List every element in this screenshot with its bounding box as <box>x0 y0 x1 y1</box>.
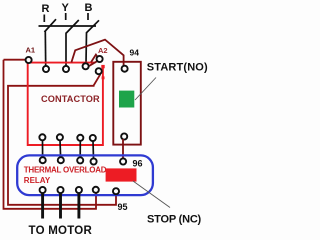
svg-text:B: B <box>85 2 93 14</box>
motor lead 1 <box>41 193 44 218</box>
terminal 96 <box>120 158 126 164</box>
wire left outer loop (dark red: down left border, along bottom, up to overload terminal) <box>4 60 97 209</box>
red stop button <box>106 168 137 181</box>
switch blade pole B <box>86 20 99 33</box>
terminal A2 <box>97 56 103 62</box>
terminal 95 <box>113 188 119 194</box>
switch linkage bar <box>39 25 97 27</box>
overload top terminal 2 <box>58 157 64 163</box>
terminal T1 (contactor bottom) <box>39 134 45 140</box>
terminal L1 (R) <box>43 66 49 72</box>
wire pole Y down to contactor <box>65 33 67 66</box>
terminal L2 (Y) <box>63 66 69 72</box>
wire inner loop (dark red: from aux contact, left at y86, down, along bottom y205, up to 95 terminal) <box>8 74 116 205</box>
overload bottom terminal 4 <box>93 187 99 193</box>
overload top terminal 4 <box>91 158 97 164</box>
overload top terminal 1 <box>40 157 46 163</box>
svg-text:THERMAL OVERLOAD: THERMAL OVERLOAD <box>24 166 107 175</box>
junction dot node (103,66.5) <box>101 65 104 68</box>
wire T2 to overload <box>59 140 62 157</box>
wire B top stub <box>87 13 89 20</box>
terminal 94 <box>122 66 128 72</box>
overload top terminal 3 <box>77 157 83 163</box>
svg-text:STOP (NC): STOP (NC) <box>147 213 202 225</box>
svg-text:94: 94 <box>130 48 140 58</box>
wire pole B down to contactor <box>85 33 88 64</box>
terminal L3 (B) <box>83 63 89 69</box>
motor lead 2 <box>59 193 62 218</box>
wire aux to overload <box>92 141 95 159</box>
svg-text:Y: Y <box>62 2 70 14</box>
wire pole R down to contactor <box>44 32 46 66</box>
wire A2 lambda link <box>91 55 101 63</box>
terminal aux bottom <box>90 135 96 141</box>
wire T3 to overload <box>79 141 81 158</box>
svg-text:TO MOTOR: TO MOTOR <box>29 225 93 237</box>
pointer line STOP <box>133 181 170 208</box>
wire T1 to overload <box>42 140 44 157</box>
terminal 93 (start bottom) <box>121 133 127 139</box>
green start button <box>119 91 134 108</box>
contactor box (bright red) <box>28 63 103 145</box>
terminal T3 <box>77 135 83 141</box>
svg-text:R: R <box>42 3 50 15</box>
pointer line START <box>135 78 156 101</box>
motor lead 3 <box>77 193 80 218</box>
overload bottom terminal 1 <box>40 187 46 193</box>
svg-text:CONTACTOR: CONTACTOR <box>41 94 100 104</box>
aux contact blade (B terminal to A2 terminal) <box>85 58 103 69</box>
svg-text:95: 95 <box>118 202 128 212</box>
wire R top stub <box>43 15 45 23</box>
thermal overload relay box (blue rounded) <box>17 155 153 195</box>
start button box (dark red) <box>113 62 141 145</box>
switch blade pole Y <box>66 20 79 33</box>
overload bottom terminal 2 <box>57 187 63 193</box>
terminal A1 <box>26 57 32 63</box>
terminal aux NO <box>96 68 102 74</box>
wire supply to A1 (dark red, from left border) <box>4 59 26 61</box>
wire start bottom to 96 (dark red) <box>122 139 124 159</box>
wire Y top stub <box>65 13 67 20</box>
svg-text:START(NO): START(NO) <box>147 61 208 73</box>
wire A2 roof (dark red: tap from red line up over to start button 94) <box>71 40 123 66</box>
switch blade pole R <box>44 19 56 32</box>
junction dot node (103,78) <box>102 76 105 79</box>
svg-text:A1: A1 <box>26 46 36 55</box>
overload bottom terminal 3 <box>76 187 82 193</box>
terminal T2 <box>57 134 63 140</box>
svg-text:96: 96 <box>133 158 143 168</box>
svg-text:RELAY: RELAY <box>24 176 51 185</box>
svg-text:A2: A2 <box>98 46 108 55</box>
